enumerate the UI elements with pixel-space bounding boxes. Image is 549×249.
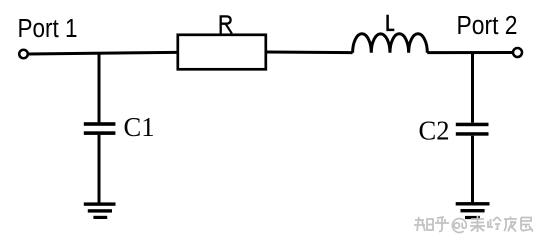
port terminal P1: [19, 50, 28, 59]
capacitor C1 bottom plate: [84, 131, 116, 135]
wire resistor to inductor: [267, 51, 353, 55]
capacitor C2 bottom plate: [456, 132, 489, 136]
watermark zhihu text: [414, 216, 533, 233]
wire C2 to ground: [471, 136, 474, 203]
port terminal P2: [513, 48, 522, 57]
wire inductor to port2: [427, 51, 512, 54]
glyph 乎: [435, 217, 449, 232]
svg-text:C2: C2: [419, 116, 450, 146]
glyph 民: [521, 218, 533, 232]
capacitor C2 top plate: [456, 123, 489, 127]
label R: [220, 16, 232, 34]
inductor L: [353, 34, 428, 53]
capacitor C1 top plate: [84, 122, 116, 126]
wire port1 to resistor: [28, 52, 176, 54]
svg-text:C1: C1: [124, 112, 155, 142]
glyph 岭: [488, 217, 501, 229]
glyph 农: [504, 217, 517, 232]
wire C2 branch vertical: [471, 53, 474, 123]
ground G2: [456, 202, 490, 219]
glyph at-sign: [452, 219, 466, 233]
svg-text:Port 2: Port 2: [457, 12, 518, 40]
glyph 秦: [470, 216, 485, 232]
wire C1 to ground: [98, 135, 101, 203]
wire C1 branch vertical: [98, 54, 101, 123]
resistor R: [178, 35, 266, 70]
label L: [388, 15, 395, 30]
ground G1: [84, 202, 116, 219]
svg-text:Port 1: Port 1: [18, 15, 78, 43]
glyph 知: [414, 217, 433, 231]
